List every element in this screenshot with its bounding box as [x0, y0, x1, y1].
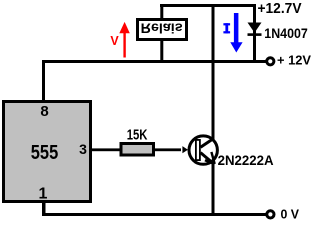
svg-text:+ 12V: + 12V — [277, 52, 311, 67]
label 15K — [127, 126, 148, 143]
wire diode lead — [253, 4, 256, 63]
label 2N2222A — [218, 152, 274, 168]
pin label 8 — [40, 103, 48, 120]
voltage arrow V (red) — [110, 22, 129, 58]
label 1N4007 — [264, 25, 308, 41]
diode D 1N4007 — [248, 23, 262, 36]
svg-text:15K: 15K — [127, 126, 148, 143]
svg-text:0 V: 0 V — [281, 207, 300, 222]
wire relay bottom lead — [160, 41, 163, 63]
label 0 V — [281, 207, 300, 222]
wire 555 pin 3 to transistor base — [92, 148, 181, 151]
label + 12V — [277, 52, 311, 67]
wire 555 pin 1 down — [42, 202, 46, 214]
IC U1 555 — [4, 102, 91, 202]
relay "Relais" — [138, 20, 187, 40]
wire +12V horizontal rail — [42, 60, 266, 63]
wire emitter down to 0V rail — [212, 162, 215, 215]
pin label 3 — [79, 141, 87, 157]
pin label 1 — [39, 185, 48, 202]
wire collector rail (top rail down to transistor collector) — [212, 4, 215, 140]
svg-text:1: 1 — [39, 185, 48, 202]
svg-text:Relais: Relais — [141, 21, 183, 37]
svg-text:V: V — [110, 34, 119, 48]
svg-text:1N4007: 1N4007 — [264, 25, 308, 41]
wire top rail (relay/diode top, +12.7V node) — [160, 4, 256, 7]
svg-text:2N2222A: 2N2222A — [218, 152, 274, 168]
svg-text:8: 8 — [40, 103, 48, 120]
label +12.7V — [258, 0, 302, 17]
terminal +12V — [267, 58, 274, 65]
svg-text:3: 3 — [79, 141, 87, 157]
wire bottom 0V rail — [42, 213, 266, 216]
terminal 0V — [267, 211, 274, 218]
resistor 15K — [121, 144, 154, 156]
svg-text:555: 555 — [31, 142, 59, 164]
transistor Q 2N2222A — [182, 136, 217, 164]
svg-text:+12.7V: +12.7V — [258, 0, 302, 17]
wire 555 pin 8 to +12V rail — [42, 60, 45, 101]
wire relay top lead — [160, 4, 163, 19]
current arrow I (blue) — [223, 13, 242, 53]
